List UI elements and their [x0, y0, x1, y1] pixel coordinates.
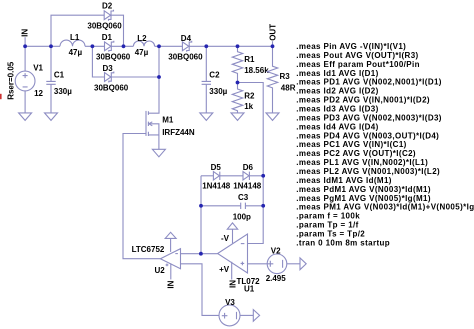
- svg-text:L1: L1: [70, 33, 80, 42]
- svg-text:IN: IN: [166, 280, 175, 288]
- svg-text:2.495: 2.495: [266, 274, 287, 283]
- ground C1: [45, 113, 58, 121]
- voltage source V3: [219, 298, 240, 326]
- svg-text:30BQ060: 30BQ060: [96, 53, 131, 62]
- wire D5 anode: [201, 175, 213, 177]
- diode D4: [168, 34, 203, 62]
- svg-text:.meas Id2 AVG I(D2): .meas Id2 AVG I(D2): [296, 87, 378, 96]
- svg-text:R2: R2: [244, 91, 255, 100]
- wire D3 branch down: [92, 46, 104, 77]
- svg-text:IN: IN: [228, 280, 237, 288]
- wire D1 cathode: [111, 45, 133, 47]
- wire C1 top: [50, 46, 52, 81]
- svg-text:.meas Pout AVG V(OUT)*I(R3): .meas Pout AVG V(OUT)*I(R3): [296, 51, 418, 60]
- svg-text:M1: M1: [162, 116, 174, 125]
- svg-text:Rser=0.05: Rser=0.05: [6, 61, 15, 100]
- svg-text:IRFZ44N: IRFZ44N: [162, 128, 195, 137]
- svg-text:.meas PL1 AVG V(IN,N002)*I(L1): .meas PL1 AVG V(IN,N002)*I(L1): [296, 158, 428, 167]
- wire V3 right and port arrow: [240, 314, 253, 316]
- svg-text:+V: +V: [219, 265, 230, 274]
- svg-text:47µ: 47µ: [135, 48, 149, 57]
- resistor R2: [232, 83, 255, 113]
- inductor L1: [60, 33, 85, 57]
- wire C1 bottom: [50, 84, 52, 113]
- svg-text:100p: 100p: [233, 212, 251, 221]
- transistor M1 IRFZ44N: [146, 111, 195, 137]
- svg-text:.meas PgM1 AVG V(N005)*Ig(M1): .meas PgM1 AVG V(N005)*Ig(M1): [296, 194, 431, 203]
- svg-text:.meas IdM1 AVG Id(M1): .meas IdM1 AVG Id(M1): [296, 176, 392, 185]
- node IN flag: [21, 29, 30, 47]
- wire V1 top: [24, 46, 26, 71]
- resistor R3: [267, 46, 295, 113]
- svg-text:.tran 0 10m 8m startup: .tran 0 10m 8m startup: [296, 239, 390, 248]
- svg-text:U2: U2: [155, 266, 166, 275]
- wire D6 cathode: [249, 175, 263, 177]
- svg-text:U1: U1: [244, 285, 255, 294]
- svg-text:.meas Id4 AVG I(D4): .meas Id4 AVG I(D4): [296, 122, 378, 131]
- svg-text:.param Ts = Tp/2: .param Ts = Tp/2: [296, 230, 365, 239]
- svg-text:C2: C2: [209, 70, 220, 79]
- svg-text:OUT: OUT: [268, 24, 277, 41]
- svg-text:330µ: 330µ: [209, 87, 227, 96]
- svg-text:1k: 1k: [244, 102, 253, 111]
- wire L1 to D1: [85, 45, 105, 47]
- svg-text:V2: V2: [271, 247, 281, 256]
- svg-text:D5: D5: [211, 163, 222, 172]
- ground R3: [266, 113, 279, 121]
- svg-text:.meas PC2 AVG V(OUT)*I(C2): .meas PC2 AVG V(OUT)*I(C2): [296, 149, 416, 158]
- wire main rail left: [25, 45, 60, 47]
- wire U1 output to junction: [201, 253, 218, 255]
- svg-text:LTC6752: LTC6752: [132, 245, 165, 254]
- svg-text:18.56k: 18.56k: [244, 66, 269, 75]
- inductor L2: [133, 34, 154, 57]
- svg-text:.meas PM1 AVG V(N003)*Id(M1)+V: .meas PM1 AVG V(N003)*Id(M1)+V(N005)*Ig(…: [296, 203, 474, 212]
- voltage source V2: [266, 247, 287, 283]
- svg-text:R1: R1: [244, 55, 255, 64]
- svg-text:D3: D3: [103, 64, 114, 73]
- wire D5 net vertical: [200, 176, 202, 254]
- svg-text:D4: D4: [181, 34, 192, 43]
- svg-text:R3: R3: [280, 72, 291, 81]
- svg-text:.meas Id3 AVG I(D3): .meas Id3 AVG I(D3): [296, 105, 378, 114]
- svg-text:.meas PD2 AVG V(IN,N001)*I(D2): .meas PD2 AVG V(IN,N001)*I(D2): [296, 96, 430, 105]
- svg-text:.meas Eff param Pout*100/Pin: .meas Eff param Pout*100/Pin: [296, 60, 420, 69]
- capacitor C3: [201, 193, 263, 221]
- wire D3 cathode: [111, 76, 159, 78]
- svg-text:.meas PdM1 AVG V(N003)*Id(M1): .meas PdM1 AVG V(N003)*Id(M1): [296, 185, 431, 194]
- svg-text:48R: 48R: [281, 83, 296, 92]
- wire V1 bottom: [24, 91, 26, 113]
- ground V1: [19, 113, 32, 121]
- diode D1: [96, 33, 131, 62]
- svg-text:.meas PL2 AVG V(N001,N003)*I(L: .meas PL2 AVG V(N001,N003)*I(L2): [296, 167, 440, 176]
- wire D5-D6: [220, 175, 243, 177]
- svg-text:.meas PD1 AVG V(N002,N001)*I(D: .meas PD1 AVG V(N002,N001)*I(D1): [296, 78, 442, 87]
- svg-text:47µ: 47µ: [69, 48, 83, 57]
- svg-text:30BQ060: 30BQ060: [94, 84, 129, 93]
- wire V2 right and port arrow: [287, 263, 300, 265]
- svg-text:30BQ060: 30BQ060: [168, 53, 203, 62]
- wire U2 top input: [181, 253, 201, 255]
- svg-text:-V: -V: [221, 234, 230, 243]
- svg-text:V3: V3: [225, 298, 235, 307]
- diode D5: [202, 163, 231, 190]
- red edge mark: [0, 94, 2, 99]
- diode D3: [94, 64, 129, 93]
- svg-text:C3: C3: [238, 193, 249, 202]
- wire M1 drain column: [148, 46, 159, 113]
- svg-text:.meas PD3 AVG V(N002,N003)*I(D: .meas PD3 AVG V(N002,N003)*I(D3): [296, 113, 442, 122]
- capacitor C2: [202, 70, 228, 96]
- spice directive text block: [296, 42, 474, 248]
- wire D2 branch up: [51, 15, 104, 46]
- wire C2 top: [205, 46, 207, 81]
- node OUT flag: [268, 24, 277, 47]
- ground M1: [152, 149, 165, 157]
- op-amp U1 TL072: [218, 223, 261, 294]
- capacitor C1: [46, 71, 72, 97]
- wire M1 source down: [158, 135, 160, 149]
- svg-text:.meas PD4 AVG V(N003,OUT)*I(D4: .meas PD4 AVG V(N003,OUT)*I(D4): [296, 131, 439, 140]
- svg-text:330µ: 330µ: [54, 87, 72, 96]
- svg-text:.meas Id1 AVG I(D1): .meas Id1 AVG I(D1): [296, 69, 378, 78]
- wire U2 bottom input to V3: [181, 264, 219, 316]
- svg-text:1N4148: 1N4148: [202, 181, 231, 190]
- comparator U2 LTC6752: [132, 232, 181, 288]
- svg-text:IN: IN: [21, 29, 30, 37]
- ground C2: [200, 113, 213, 121]
- wire D4 to OUT: [189, 45, 272, 47]
- wire U1 plus input to V2: [248, 263, 268, 265]
- svg-text:D6: D6: [243, 163, 254, 172]
- wire feedback from R1-R2 junction: [238, 83, 264, 244]
- svg-text:12: 12: [34, 89, 43, 98]
- svg-text:V1: V1: [33, 64, 43, 73]
- diode D2: [87, 2, 122, 31]
- svg-text:D2: D2: [102, 2, 113, 11]
- wire M1 gate to U2 output: [123, 134, 160, 259]
- svg-text:.meas PC1 AVG V(IN)*I(C1): .meas PC1 AVG V(IN)*I(C1): [296, 140, 406, 149]
- svg-text:.meas Pin AVG -V(IN)*I(V1): .meas Pin AVG -V(IN)*I(V1): [296, 42, 406, 51]
- svg-text:L2: L2: [137, 34, 147, 43]
- diode D6: [233, 163, 262, 190]
- svg-text:C1: C1: [54, 71, 65, 80]
- svg-text:.param Tp = 1/f: .param Tp = 1/f: [296, 221, 358, 230]
- svg-text:1N4148: 1N4148: [233, 181, 262, 190]
- svg-text:30BQ060: 30BQ060: [87, 21, 122, 30]
- voltage source V1: [6, 61, 43, 100]
- wire D2 cathode return: [111, 15, 124, 46]
- svg-text:D1: D1: [102, 33, 113, 42]
- svg-text:.param f = 100k: .param f = 100k: [296, 212, 360, 221]
- ground R2: [231, 113, 244, 121]
- resistor R1: [232, 46, 269, 82]
- wire L2 to D4: [155, 45, 183, 47]
- wire C2 bottom: [205, 84, 207, 113]
